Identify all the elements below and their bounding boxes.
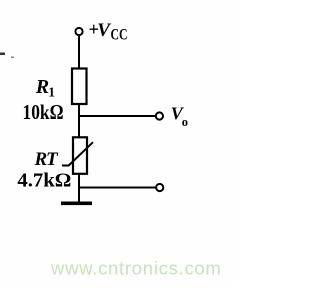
- svg-text:CC: CC: [111, 27, 128, 44]
- svg-text:V: V: [97, 20, 111, 41]
- svg-text:o: o: [182, 115, 188, 129]
- svg-text:www.cntronics.com: www.cntronics.com: [50, 257, 222, 278]
- svg-text:RT: RT: [34, 149, 59, 170]
- svg-text:10kΩ: 10kΩ: [23, 102, 64, 124]
- svg-text:R: R: [35, 76, 49, 98]
- svg-text:4.7kΩ: 4.7kΩ: [17, 170, 71, 192]
- svg-text:1: 1: [48, 85, 55, 100]
